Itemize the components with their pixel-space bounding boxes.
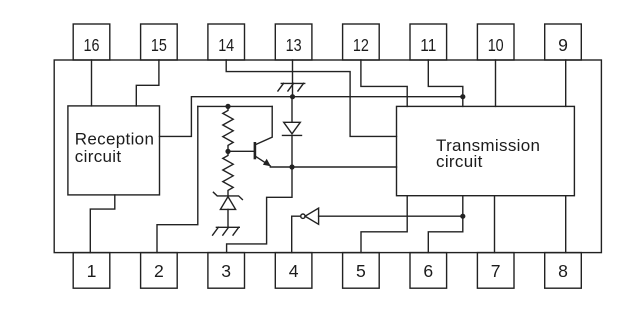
wire zener to bottom ground (227, 209, 229, 227)
Reception circuit block U1 (68, 106, 160, 195)
svg-text:6: 6 (423, 261, 433, 281)
inverter U2 bubble (301, 214, 305, 218)
node E dot (289, 164, 294, 169)
svg-text:circuit: circuit (436, 152, 483, 171)
node A dot on rail (290, 94, 295, 99)
resistor R2 (223, 151, 233, 196)
svg-text:12: 12 (353, 35, 369, 55)
pin 10 box (477, 24, 514, 60)
diode D1 triangle (284, 122, 301, 134)
pin 15 box (141, 24, 178, 60)
wire pin12 to Transmission top (361, 60, 407, 106)
svg-text:Reception: Reception (75, 130, 154, 149)
svg-text:10: 10 (488, 35, 504, 55)
wire node E to pin3 (227, 167, 292, 253)
pin 11 box (410, 24, 447, 60)
node F dot (460, 214, 465, 219)
pin 9 box (545, 24, 582, 60)
diode D1 cathode wire to node E (291, 135, 293, 167)
svg-text:8: 8 (558, 261, 568, 281)
diode D1 cathode bar (283, 134, 302, 136)
wire node B to Transmission top (462, 97, 464, 107)
node C dot (225, 104, 230, 109)
wire pin13 to ground rail (292, 60, 294, 97)
transistor Q1 base bar (254, 143, 257, 158)
svg-text:9: 9 (558, 35, 568, 55)
wire node E to Transmission left (292, 166, 397, 168)
pin 13 box (275, 24, 312, 60)
node B dot on rail (460, 94, 465, 99)
wire pin14 to Transmission left (226, 60, 396, 136)
inverter U2 triangle (305, 208, 319, 224)
pin 1 box (73, 253, 110, 289)
svg-text:circuit: circuit (75, 147, 122, 166)
pin 3 box (208, 253, 245, 289)
wire pin10 to Transmission top (495, 60, 497, 106)
zener diode D2 triangle (220, 197, 235, 210)
svg-text:13: 13 (286, 35, 302, 55)
pin 8 box (545, 253, 582, 289)
wire supply rail from Reception to node B (160, 97, 463, 137)
svg-text:14: 14 (218, 35, 234, 55)
wire Transmission bottom to pin8 (565, 196, 567, 253)
svg-text:16: 16 (84, 35, 100, 55)
diode D1 anode wire from node A (291, 97, 293, 123)
wire pin9 to Transmission top (565, 60, 567, 106)
svg-text:5: 5 (356, 261, 366, 281)
svg-text:11: 11 (420, 35, 436, 55)
wire Transmission bottom through node F to pin6 (428, 196, 463, 253)
IC package body outline (54, 60, 601, 253)
svg-text:3: 3 (221, 261, 231, 281)
chassis ground bottom bar (216, 226, 239, 228)
transistor Q1 base wire (228, 150, 255, 152)
transistor Q1 collector wire (256, 106, 273, 144)
chassis ground bottom hatch 2 (223, 227, 229, 235)
pin 6 box (410, 253, 447, 289)
svg-text:15: 15 (151, 35, 167, 55)
wire emitter to node E (270, 166, 292, 168)
pin 7 box (477, 253, 514, 289)
svg-text:2: 2 (154, 261, 164, 281)
chassis ground top hatch 3 (298, 83, 304, 91)
wire Transmission bottom to pin5 (361, 196, 407, 253)
wire inverter input to node F (319, 215, 463, 217)
svg-text:4: 4 (289, 261, 299, 281)
node D dot (225, 149, 230, 154)
transistor Q1 emitter arrowhead (263, 159, 271, 166)
wire Transmission bottom to pin7 (494, 196, 496, 253)
wire pin16 to Reception top (91, 60, 93, 106)
pin 4 box (275, 253, 312, 289)
wire Reception bottom to pin1 (90, 195, 115, 253)
wire pin15 to Reception top (136, 60, 159, 106)
chassis ground bottom hatch 1 (213, 227, 219, 235)
pin 2 box (141, 253, 178, 289)
pin 5 box (343, 253, 380, 289)
wire pin11 to node B (428, 60, 463, 97)
transistor Q1 emitter wire (255, 156, 270, 166)
chassis ground top bar (281, 82, 304, 84)
pin 16 box (73, 24, 110, 60)
wire inverter output to pin4 (292, 216, 301, 252)
Transmission circuit block U3 (397, 106, 575, 195)
wire collector top line (198, 105, 272, 107)
svg-text:1: 1 (87, 261, 97, 281)
chassis ground top hatch 2 (288, 83, 294, 91)
pin 14 box (208, 24, 245, 60)
resistor R1 (223, 106, 233, 151)
chassis ground bottom hatch 3 (233, 227, 239, 235)
pin 12 box (343, 24, 380, 60)
svg-text:7: 7 (491, 261, 501, 281)
wire pin2 riser to collector line (157, 106, 198, 252)
zener diode D2 bar with wings (213, 192, 242, 199)
chassis ground top hatch 1 (278, 83, 284, 91)
